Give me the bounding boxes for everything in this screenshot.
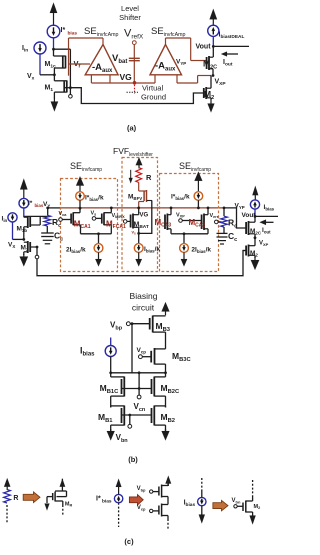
svg-text:Iout: Iout xyxy=(223,59,233,68)
svg-text:M2: M2 xyxy=(204,89,214,101)
svg-text:MBFV: MBFV xyxy=(128,194,142,201)
svg-text:M2: M2 xyxy=(250,250,258,257)
svg-text:SEinvfcAmp: SEinvfcAmp xyxy=(151,26,186,38)
svg-text:Cc: Cc xyxy=(54,231,63,243)
svg-text:I*bias/k: I*bias/k xyxy=(85,195,104,202)
svg-text:MBAT: MBAT xyxy=(134,222,149,231)
svg-text:2Ibias/k: 2Ibias/k xyxy=(191,247,211,254)
svg-text:MCA1: MCA1 xyxy=(74,220,91,231)
svg-text:M2C: M2C xyxy=(203,59,217,71)
svg-text:Vout: Vout xyxy=(242,212,257,219)
svg-text:MB3: MB3 xyxy=(156,321,171,333)
svg-text:Ibias: Ibias xyxy=(264,204,275,211)
svg-text:MB2C: MB2C xyxy=(161,383,181,395)
svg-text:MCA3: MCA3 xyxy=(155,218,172,229)
svg-text:Shifter: Shifter xyxy=(119,13,141,22)
svg-text:Vbn: Vbn xyxy=(116,433,129,444)
svg-text:MB2: MB2 xyxy=(161,412,176,424)
svg-text:Iin: Iin xyxy=(22,45,28,54)
svg-text:Virtual: Virtual xyxy=(142,84,163,93)
svg-text:I*bias/k: I*bias/k xyxy=(171,194,190,201)
svg-text:Vbp: Vbp xyxy=(137,486,146,492)
svg-text:Ibias: Ibias xyxy=(184,500,196,509)
svg-text:VrefX: VrefX xyxy=(124,28,144,41)
svg-text:VXP: VXP xyxy=(215,79,227,88)
svg-text:IbiasIDEAL: IbiasIDEAL xyxy=(219,32,245,41)
svg-text:Iout: Iout xyxy=(262,227,271,234)
svg-text:MB3C: MB3C xyxy=(172,351,192,363)
svg-text:MB1: MB1 xyxy=(98,412,113,424)
svg-text:M2: M2 xyxy=(254,504,261,510)
svg-text:Biasing: Biasing xyxy=(130,291,158,301)
svg-text:VMIRX: VMIRX xyxy=(112,213,126,219)
svg-text:2Ibias/k: 2Ibias/k xyxy=(66,247,86,254)
svg-text:M1: M1 xyxy=(45,85,54,94)
svg-text:Vcp: Vcp xyxy=(137,505,146,511)
svg-text:vs: vs xyxy=(132,230,137,236)
svg-text:VXP: VXP xyxy=(259,241,269,247)
svg-text:(b): (b) xyxy=(128,455,138,464)
svg-text:SEinvfcAmp: SEinvfcAmp xyxy=(84,26,119,38)
svg-text:Iin: Iin xyxy=(2,216,8,223)
svg-text:Vx: Vx xyxy=(27,73,35,82)
svg-text:Vcn: Vcn xyxy=(134,402,146,413)
svg-text:Cc: Cc xyxy=(228,231,237,243)
svg-text:VG: VG xyxy=(140,213,149,219)
svg-text:VG: VG xyxy=(120,72,133,82)
svg-text:I*: I* xyxy=(61,27,66,34)
svg-text:Ground: Ground xyxy=(141,93,166,102)
svg-text:VYP: VYP xyxy=(176,59,186,66)
svg-text:MCA2: MCA2 xyxy=(189,218,206,229)
svg-text:bias: bias xyxy=(102,499,112,505)
svg-text:MB1C: MB1C xyxy=(100,383,120,395)
svg-text:Vbat: Vbat xyxy=(112,53,127,65)
svg-text:Vcp: Vcp xyxy=(137,347,147,354)
svg-text:(a): (a) xyxy=(127,124,137,133)
svg-text:R: R xyxy=(13,495,18,502)
svg-text:Vout: Vout xyxy=(196,44,212,51)
svg-text:SEinvfcamp: SEinvfcamp xyxy=(179,161,211,173)
svg-text:-Aaux: -Aaux xyxy=(92,62,113,74)
svg-text:Vbn: Vbn xyxy=(232,498,241,504)
svg-text:Rc: Rc xyxy=(228,218,237,230)
svg-text:Vca: Vca xyxy=(59,211,68,217)
svg-text:VX: VX xyxy=(8,242,15,249)
svg-text:FVFlevelshifter: FVFlevelshifter xyxy=(113,146,153,158)
svg-text:R: R xyxy=(146,173,152,182)
svg-text:Ibias/k: Ibias/k xyxy=(144,246,160,253)
svg-text:Vs: Vs xyxy=(91,211,97,217)
svg-text:Verr: Verr xyxy=(210,213,219,219)
svg-text:-Aaux: -Aaux xyxy=(155,61,176,73)
svg-text:M2C: M2C xyxy=(250,228,262,235)
svg-text:MR: MR xyxy=(65,502,73,508)
svg-text:M1c: M1c xyxy=(45,61,57,70)
svg-text:Ibias: Ibias xyxy=(80,346,95,358)
svg-text:I*: I* xyxy=(96,496,101,503)
svg-text:circuit: circuit xyxy=(132,303,155,313)
svg-text:(c): (c) xyxy=(124,537,134,546)
svg-text:SEinvfcamp: SEinvfcamp xyxy=(70,161,102,173)
svg-text:Level: Level xyxy=(121,4,139,13)
svg-text:bias: bias xyxy=(68,31,78,37)
svg-text:I*: I* xyxy=(28,200,33,207)
svg-text:VXP: VXP xyxy=(176,213,185,219)
svg-text:Vbp: Vbp xyxy=(110,321,123,332)
